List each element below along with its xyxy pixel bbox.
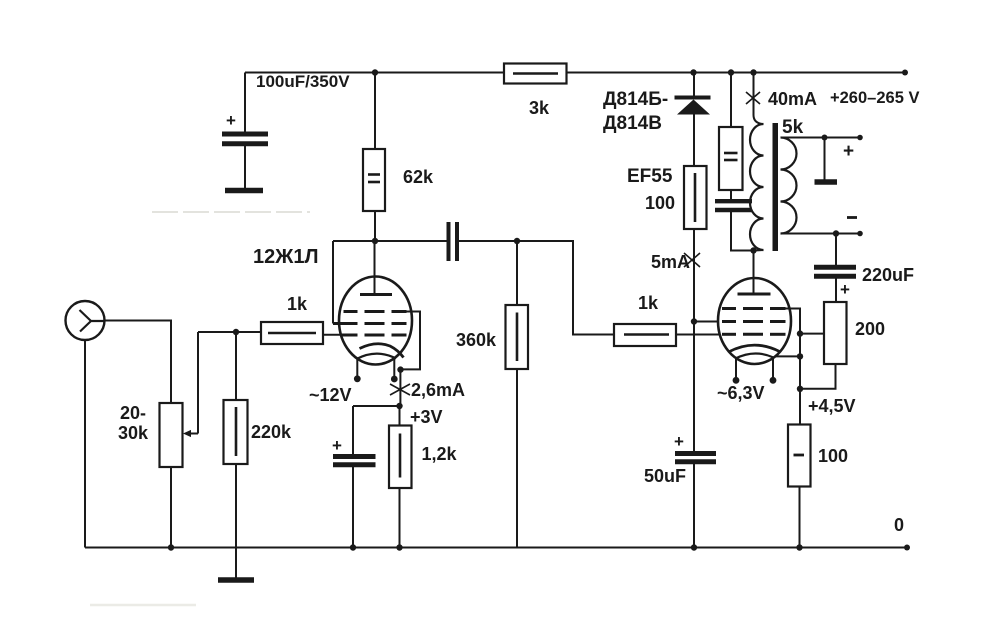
svg-text:+: + <box>843 141 854 162</box>
svg-text:0: 0 <box>894 515 904 535</box>
resistor R5 3k body <box>504 64 567 84</box>
zener D1 lead bottom <box>693 115 695 167</box>
svg-text:50uF: 50uF <box>644 466 686 486</box>
capacitor C4 50uF plates <box>675 451 716 456</box>
resistor R1 62k body <box>363 149 385 211</box>
test point x 5mA <box>684 253 700 267</box>
node junction bracket / cathode <box>797 353 803 359</box>
transformer T1 primary lead top <box>754 73 764 125</box>
node ground rail right terminal <box>904 545 910 551</box>
capacitor C2 coupling plates <box>447 222 451 261</box>
svg-text:2,6mA: 2,6mA <box>411 380 465 400</box>
resistor R5 3k inner line <box>513 72 558 75</box>
scan artifact streak <box>152 211 310 213</box>
svg-text:62k: 62k <box>403 167 434 187</box>
tube V2 heater arc <box>736 353 774 358</box>
wire secondary plus lead <box>781 137 861 139</box>
wire bracket to 200 resistor <box>800 333 824 335</box>
label minus output <box>847 216 857 219</box>
svg-text:1k: 1k <box>287 294 308 314</box>
resistor R6 360k lead top <box>516 241 518 305</box>
wire grid input to R2 <box>198 331 261 333</box>
resistor R11 inner dash <box>794 454 805 457</box>
svg-text:220uF: 220uF <box>862 265 914 285</box>
capacitor C3 lead bottom <box>352 467 354 548</box>
node junction plus terminal <box>822 135 828 141</box>
wire jack ground lead <box>84 340 86 548</box>
wire jack to pot <box>104 321 171 404</box>
wire secondary minus lead <box>781 233 861 235</box>
tube V1 grid row3 dashes <box>341 334 407 337</box>
wire ground bottom rail <box>85 547 907 549</box>
capacitor C1 100uF/350V lead top <box>244 73 246 132</box>
resistor R2 1k lead right <box>323 334 342 336</box>
capacitor C6 220uF lead top <box>835 234 837 266</box>
test point x 40mA <box>746 92 760 104</box>
capacitor C5 filter lead <box>730 190 732 199</box>
tube V1 anode lead <box>374 241 376 295</box>
capacitor C1 bottom terminal bar <box>225 188 263 194</box>
resistor R4 1,2k body <box>389 426 412 489</box>
node junction anode/62k <box>372 238 378 244</box>
svg-text:+260–265 V: +260–265 V <box>830 89 919 107</box>
wire cathode RC horizontal <box>353 405 400 407</box>
node junction zener / rail <box>690 69 696 75</box>
svg-text:5mA: 5mA <box>651 252 690 272</box>
node junction screen grid <box>691 318 697 324</box>
resistor R1 62k lead top <box>374 73 376 150</box>
tube V2 heater pin right <box>772 358 774 379</box>
svg-text:+: + <box>840 280 850 299</box>
node junction filter / rail <box>728 69 734 75</box>
resistor R4 1,2k inner line <box>399 434 402 478</box>
capacitor C3 bypass plates <box>333 454 376 459</box>
output plus terminal bar <box>815 179 838 185</box>
svg-text:360k: 360k <box>456 330 497 350</box>
node junction 62k / rail <box>372 69 378 75</box>
output plus terminal stem <box>824 138 826 181</box>
resistor R6 360k lead bottom <box>516 369 518 548</box>
capacitor C5 filter plates <box>715 199 752 203</box>
node junction 220uF top <box>833 230 839 236</box>
test point x 2,6mA <box>390 384 410 395</box>
svg-text:12Ж1Л: 12Ж1Л <box>253 246 318 268</box>
capacitor C5 lead bottom <box>731 212 754 251</box>
node junction coupling/360k <box>514 238 520 244</box>
svg-text:+3V: +3V <box>410 407 443 427</box>
svg-text:220k: 220k <box>251 422 292 442</box>
transformer T1 secondary winding <box>781 138 797 234</box>
resistor R7 1k lead right <box>676 334 719 336</box>
node top rail right terminal <box>902 70 908 76</box>
wire top B+ rail <box>245 72 905 74</box>
tube V1 heater arc <box>357 354 397 359</box>
tube V2 anode plate <box>738 293 771 296</box>
zener D1 D814B lead top <box>693 73 695 96</box>
node junction bracket / 200 top wire <box>797 330 803 336</box>
zener D1 triangle <box>677 100 710 115</box>
svg-text:100: 100 <box>645 193 675 213</box>
tube V1 grid row1 dashes <box>344 310 407 313</box>
svg-text:Д814В: Д814В <box>603 113 662 134</box>
resistor R2 1k grid stopper body <box>261 322 323 344</box>
node junction cathode RC <box>396 403 402 409</box>
svg-text:Д814Б-: Д814Б- <box>603 89 668 110</box>
resistor R1 62k lead bottom <box>374 211 376 241</box>
wire V1 screen tie vertical <box>332 241 334 324</box>
tube V1 heater pin right <box>393 359 395 378</box>
node junction cathode bracket <box>397 366 403 372</box>
capacitor C4 lead bottom <box>693 464 695 548</box>
resistor R4 1,2k lead bottom <box>399 488 401 548</box>
node junction C4 / ground rail <box>691 544 697 550</box>
node junction pot / ground rail <box>168 544 174 550</box>
resistor R6 360k inner line <box>516 313 519 362</box>
node junction R11 / ground rail <box>796 544 802 550</box>
node secondary minus end <box>857 231 863 237</box>
tube V2 grid row1 dashes <box>722 307 786 310</box>
wire V1 suppressor-cathode bracket <box>401 312 421 370</box>
svg-text:100uF/350V: 100uF/350V <box>256 72 350 91</box>
resistor R7 1k inner line <box>624 333 669 336</box>
tube V2 cathode dome <box>729 345 780 352</box>
resistor R2 1k inner line <box>268 332 316 335</box>
svg-text:5k: 5k <box>782 117 804 138</box>
resistor R3 220k lead top <box>235 332 237 400</box>
tube V1 anode plate <box>360 293 392 296</box>
resistor R7 1k V2 grid body <box>614 324 676 346</box>
node junction C3 / ground rail <box>350 544 356 550</box>
svg-text:40mA: 40mA <box>768 89 817 109</box>
svg-text:1,2k: 1,2k <box>422 444 458 464</box>
resistor R1 62k power marks <box>368 173 380 176</box>
svg-text:200: 200 <box>855 319 885 339</box>
tube V2 grid row3 dashes <box>722 333 786 336</box>
potentiometer 20-30k body <box>160 403 183 467</box>
resistor R11 lead bottom <box>799 487 801 548</box>
svg-text:30k: 30k <box>118 423 149 443</box>
resistor R3 220k inner line <box>235 407 238 456</box>
capacitor C1 lead bottom <box>244 146 246 188</box>
resistor R6 360k body <box>506 305 529 369</box>
transformer T1 primary winding <box>750 124 764 250</box>
node junction R4 / ground rail <box>396 544 402 550</box>
resistor R8 lead bottom <box>693 229 695 322</box>
resistor R10 lead bottom <box>800 364 836 389</box>
node junction bracket / 200 bottom <box>797 386 803 392</box>
resistor R3 220k body <box>224 400 248 464</box>
tube V1 grid row2 dashes with screen tie <box>333 322 407 325</box>
input jack Y contact <box>80 310 105 332</box>
capacitor C6 lead bottom <box>835 279 837 303</box>
wire coupling to V2 grid <box>517 241 614 335</box>
wire V2 suppressor bracket <box>786 309 801 425</box>
capacitor C3 bypass lead top <box>352 406 354 455</box>
resistor R8 100 inner line <box>694 173 697 222</box>
tube V2 heater pin left <box>735 359 737 379</box>
potentiometer wiper arrow <box>186 433 198 435</box>
capacitor C1 100uF/350V plates <box>222 132 268 137</box>
tube V2 anode lead <box>753 251 755 295</box>
potentiometer lead bottom <box>170 467 172 548</box>
tube V2 grid row2 dashes <box>722 320 786 323</box>
capacitor C6 220uF plates <box>814 265 856 270</box>
resistor R9 filter body <box>719 127 743 190</box>
svg-text:EF55: EF55 <box>627 166 673 187</box>
resistor R8 100 screen body <box>684 166 707 229</box>
transformer T1 core <box>773 123 779 251</box>
potentiometer wiper wire <box>197 332 199 434</box>
wire screen node down to C4 <box>693 322 695 452</box>
svg-text:~6,3V: ~6,3V <box>717 383 765 403</box>
node secondary plus end <box>857 135 863 141</box>
svg-text:~12V: ~12V <box>309 385 352 405</box>
node junction primary bottom <box>750 247 756 253</box>
wire screen to V2 <box>694 321 719 323</box>
svg-text:+4,5V: +4,5V <box>808 396 856 416</box>
node junction primary / rail <box>750 69 756 75</box>
svg-text:+: + <box>226 111 236 130</box>
resistor R3 220k lead bottom <box>235 464 237 578</box>
tube V2 EF55 envelope <box>718 278 791 364</box>
svg-text:100: 100 <box>818 446 848 466</box>
scan artifact streak bottom <box>90 604 196 607</box>
wire V1 anode node horizontal right <box>459 240 574 242</box>
resistor R4 1,2k lead top <box>399 406 401 426</box>
zener D1 cathode bar <box>675 96 711 100</box>
transformer T1 primary lead bottom <box>754 249 764 252</box>
svg-text:20-: 20- <box>120 403 146 423</box>
svg-text:1k: 1k <box>638 293 659 313</box>
tube V1 12Zh1L envelope <box>339 277 412 365</box>
ground symbol <box>218 577 254 583</box>
tube V1 cathode dome <box>360 344 404 358</box>
input jack circle <box>66 301 105 340</box>
svg-text:3k: 3k <box>529 98 550 118</box>
resistor R9 filter lead top <box>730 73 732 128</box>
svg-text:+: + <box>674 432 684 451</box>
node junction 220k top <box>233 329 239 335</box>
wire cathode tie <box>775 355 800 357</box>
resistor R9 power marks <box>724 152 738 155</box>
tube V1 heater pin left <box>356 359 358 377</box>
resistor R10 200 body <box>824 302 847 364</box>
wire V1 cathode down <box>399 370 401 406</box>
wire V1 anode node horizontal left <box>333 240 447 242</box>
svg-text:+: + <box>332 436 342 455</box>
resistor R11 100 cathode body <box>788 425 811 487</box>
